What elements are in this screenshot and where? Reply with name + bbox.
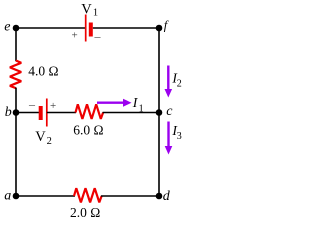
wire e down to resistor 4.0 (left top segment) xyxy=(15,28,17,61)
value label 2.0 ohm xyxy=(70,205,100,220)
svg-text:a: a xyxy=(4,189,11,204)
svg-text:b: b xyxy=(5,105,12,120)
resistor R2 6.0 ohm xyxy=(76,104,104,119)
node e label xyxy=(4,20,10,35)
svg-text:c: c xyxy=(166,104,173,119)
node a xyxy=(13,193,20,200)
label V2 xyxy=(35,129,52,147)
resistor R3 2.0 ohm xyxy=(74,188,102,202)
svg-text:–: – xyxy=(28,97,36,111)
svg-text:3: 3 xyxy=(177,131,182,142)
node c xyxy=(156,109,163,116)
value label 4.0 ohm xyxy=(28,64,58,79)
svg-text:2: 2 xyxy=(47,136,52,147)
svg-text:V: V xyxy=(35,129,46,145)
resistor R1 4.0 ohm xyxy=(10,61,21,89)
label V1 xyxy=(81,1,98,18)
wire resistor 4.0 to b (left mid segment) xyxy=(15,88,17,112)
svg-text:V: V xyxy=(81,1,92,17)
node d label xyxy=(163,189,171,204)
svg-text:+: + xyxy=(50,100,56,112)
svg-text:2.0 Ω: 2.0 Ω xyxy=(70,205,100,220)
wire f to c (right upper segment) xyxy=(158,28,160,112)
node f label xyxy=(164,18,169,32)
wire resistor 2.0 to d (bottom right segment) xyxy=(101,195,159,197)
label I1 xyxy=(132,95,144,114)
battery V2 xyxy=(41,99,47,127)
plus sign of V2 xyxy=(50,100,56,112)
battery V1 xyxy=(86,15,91,42)
current arrow I1 xyxy=(97,99,132,107)
wire c to d (right lower segment) xyxy=(158,112,160,196)
label I2 xyxy=(171,71,181,90)
current arrow I3 xyxy=(165,122,173,155)
svg-text:4.0 Ω: 4.0 Ω xyxy=(28,64,58,79)
svg-text:2: 2 xyxy=(177,79,182,90)
svg-text:–: – xyxy=(94,29,102,43)
wire resistor 6.0 to c (middle right segment) xyxy=(103,112,159,114)
wire V1 to f (top right segment) xyxy=(93,27,159,29)
svg-text:1: 1 xyxy=(93,8,98,19)
wire V2 to resistor 6.0 (middle segment) xyxy=(47,112,76,114)
current arrow I2 xyxy=(165,66,173,98)
label I3 xyxy=(171,123,181,142)
svg-text:1: 1 xyxy=(139,104,144,115)
minus sign of V1 xyxy=(94,29,102,43)
node c label xyxy=(166,104,173,119)
node a label xyxy=(4,189,11,204)
wire b to a (left bottom segment) xyxy=(15,112,17,196)
value label 6.0 ohm xyxy=(73,122,103,137)
svg-text:6.0 Ω: 6.0 Ω xyxy=(73,122,103,137)
svg-text:d: d xyxy=(163,189,171,204)
minus sign of V2 xyxy=(28,97,36,111)
node b label xyxy=(5,105,12,120)
svg-text:+: + xyxy=(72,30,78,42)
plus sign of V1 xyxy=(72,30,78,42)
node e xyxy=(13,25,20,32)
svg-text:e: e xyxy=(4,20,10,35)
node d xyxy=(156,193,163,200)
node f xyxy=(156,25,163,32)
wire a to resistor 2.0 (bottom left segment) xyxy=(16,195,75,197)
wire b to V2 (middle left segment) xyxy=(16,112,39,114)
node b xyxy=(13,109,20,116)
wire e to V1 (top left segment) xyxy=(16,27,85,29)
